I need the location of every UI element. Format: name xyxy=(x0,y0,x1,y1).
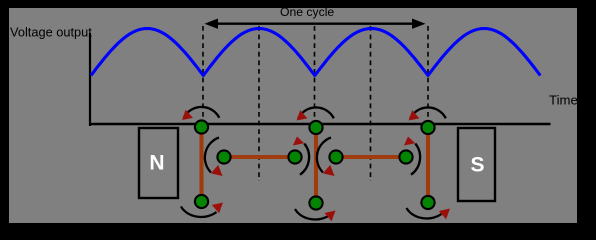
magnet S pole box xyxy=(458,128,495,201)
rotation arc right of coil position-4 right end xyxy=(411,144,420,175)
vertical axis (voltage) xyxy=(89,33,91,126)
blue rectified-sine voltage curve xyxy=(91,29,540,76)
coil position-2 wire (horizontal) xyxy=(224,155,295,159)
rotation arrow above coil position-5 (red) xyxy=(409,110,420,120)
coil position-2 right conductor (green) xyxy=(288,150,301,163)
rotation arc above coil position-5 xyxy=(410,107,446,118)
dashed timing line x=259 xyxy=(258,26,260,181)
svg-text:S: S xyxy=(470,154,484,177)
svg-text:N: N xyxy=(149,152,164,175)
coil position-4 left conductor (green) xyxy=(329,150,342,163)
rotation arrow above coil position-4 right end (red) xyxy=(404,137,415,146)
rotation arrow below coil position-1 (red) xyxy=(212,203,223,214)
rotation arc below coil position-3 xyxy=(295,209,331,219)
coil position-5 top conductor (green) xyxy=(421,121,434,134)
one-cycle right arrowhead xyxy=(412,19,426,29)
horizontal axis (time) xyxy=(89,123,551,126)
rotation arc above coil position-3 xyxy=(298,107,334,118)
coil position-3 bottom conductor (green) xyxy=(309,196,322,209)
coil position-1 bottom conductor (green) xyxy=(195,195,208,208)
coil position-4 wire (horizontal) xyxy=(336,155,406,159)
dashed timing line x=203 xyxy=(202,26,204,120)
rotation arrow above coil position-3 (red) xyxy=(297,110,308,120)
rotation arc below coil position-5 xyxy=(407,208,443,218)
coil position-1 wire (vertical) xyxy=(199,127,203,202)
rotation arrow above coil position-1 (red) xyxy=(182,110,193,120)
one-cycle left arrowhead xyxy=(205,19,219,29)
magnet N pole box xyxy=(139,128,178,198)
rotation arrow above coil position-2 right end (red) xyxy=(293,137,304,146)
coil position-3 top conductor (green) xyxy=(309,121,322,134)
dashed timing line x=314.5 xyxy=(314,26,316,120)
one-cycle double arrow line xyxy=(212,23,418,25)
rotation arc left of coil position-4 left end xyxy=(317,138,331,173)
rotation arc left of coil position-2 left end xyxy=(205,138,219,173)
rotation arrow below coil position-5 (red) xyxy=(439,209,450,220)
coil position-3 wire (vertical) xyxy=(314,128,318,204)
coil position-5 wire (vertical) xyxy=(426,128,430,203)
rotation arrow below coil position-3 (red) xyxy=(324,211,335,222)
dashed timing line x=428 xyxy=(427,26,429,120)
rotation arc right of coil position-2 right end xyxy=(300,144,309,175)
rotation arc below coil position-1 xyxy=(181,207,217,217)
coil position-4 right conductor (green) xyxy=(399,150,412,163)
coil position-2 left conductor (green) xyxy=(217,150,230,163)
coil position-5 bottom conductor (green) xyxy=(421,196,434,209)
rotation arrow below coil position-2 left end (red) xyxy=(211,165,223,176)
svg-text:Voltage output: Voltage output xyxy=(10,25,92,40)
dashed timing line x=370.5 xyxy=(370,26,372,181)
rotation arc above coil position-1 xyxy=(184,107,220,118)
rotation arrow below coil position-4 left end (red) xyxy=(323,165,335,176)
svg-text:Time: Time xyxy=(549,93,578,108)
coil position-1 top conductor (green) xyxy=(195,120,208,133)
